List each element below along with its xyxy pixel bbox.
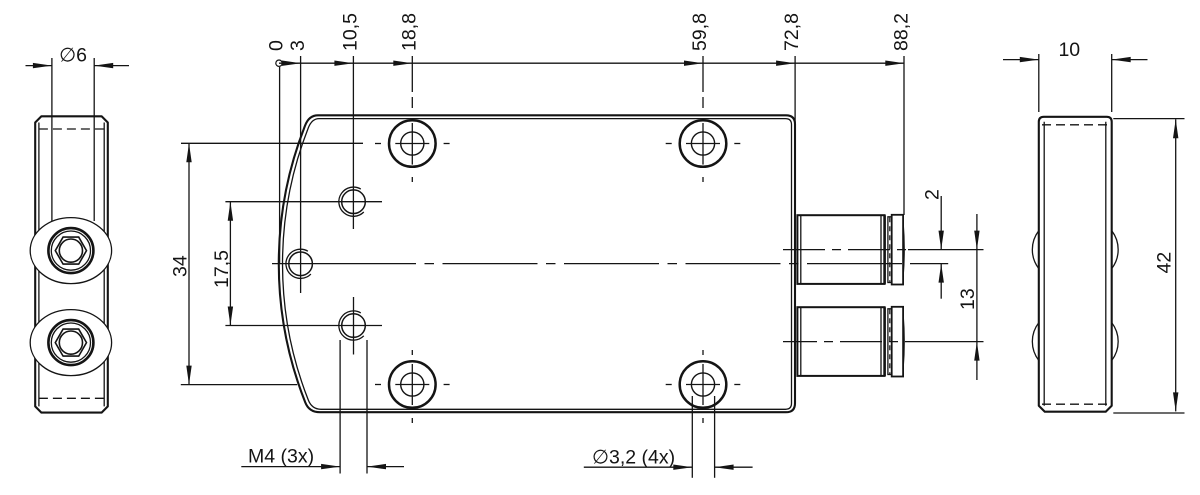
extension line x=72.8 <box>794 56 796 134</box>
mounting hole Ø3.2 top-left <box>375 120 450 167</box>
svg-text:18,8: 18,8 <box>398 13 420 51</box>
dimension 17,5 <box>211 202 382 326</box>
baseline dimension chain 0/3/10.5/18.8/59.8/72.8/88.2 <box>276 60 905 66</box>
M4 thread hole upper <box>339 187 365 216</box>
lower socket-head screw, left view <box>30 310 111 376</box>
extension line x=3 <box>300 56 302 233</box>
centreline cross, upper M4 <box>352 63 354 229</box>
centreline cross, centre M4 <box>300 233 302 293</box>
svg-text:72,8: 72,8 <box>781 13 803 51</box>
svg-text:10: 10 <box>1058 39 1080 61</box>
svg-text:M4 (3x): M4 (3x) <box>248 446 314 468</box>
upper socket-head screw, left view <box>30 218 111 284</box>
M4 thread hole centre <box>286 249 312 278</box>
fitting bump lower-left <box>1032 323 1038 361</box>
dimension 10 <box>1003 39 1148 112</box>
upper fitting centreline <box>783 249 984 251</box>
centreline bottom-left hole <box>411 350 413 423</box>
callout Ø3,2 (4x) <box>584 396 753 478</box>
svg-text:17,5: 17,5 <box>211 250 233 288</box>
svg-text:0: 0 <box>266 40 288 51</box>
dimension 42 <box>1113 119 1184 413</box>
mounting hole Ø3.2 top-right <box>666 120 741 167</box>
fitting bump lower-right <box>1112 323 1118 361</box>
svg-text:10,5: 10,5 <box>339 13 361 51</box>
extension line x=0 <box>279 67 281 264</box>
hidden edge (dashed) bottom of left view <box>39 397 104 399</box>
svg-text:3: 3 <box>287 40 309 51</box>
centreline bottom-right hole <box>702 350 704 423</box>
svg-text:∅6: ∅6 <box>59 45 87 67</box>
dimension 13 <box>957 214 980 380</box>
main top view: body outline <box>279 115 795 412</box>
pneumatic fitting, lower <box>797 307 904 377</box>
svg-text:2: 2 <box>922 189 944 200</box>
hidden edge (dashed) top of left view <box>39 128 104 130</box>
extension line x=59.8 <box>702 56 704 182</box>
svg-text:13: 13 <box>957 288 979 310</box>
extension line x=88.2 <box>903 56 905 215</box>
svg-text:59,8: 59,8 <box>689 13 711 51</box>
fitting bump upper-left <box>1032 231 1038 269</box>
pneumatic fitting, upper <box>797 215 904 285</box>
M4 thread hole lower <box>339 311 365 340</box>
fitting bump upper-right <box>1112 231 1118 269</box>
dimension Ø6 (screw head) <box>26 45 130 222</box>
dimension 34 <box>170 143 364 384</box>
left side view: mounting-bracket body <box>35 116 108 412</box>
mounting hole Ø3.2 bottom-left <box>375 361 450 408</box>
right side view body <box>1039 117 1112 412</box>
svg-text:∅3,2 (4x): ∅3,2 (4x) <box>592 447 675 469</box>
callout M4 (3x) <box>241 340 404 474</box>
svg-text:34: 34 <box>170 255 192 277</box>
svg-text:88,2: 88,2 <box>890 13 912 51</box>
dimension 2 <box>922 189 944 299</box>
lower fitting centreline <box>783 341 984 343</box>
svg-text:42: 42 <box>1154 252 1176 274</box>
centreline cross, lower M4 <box>353 297 355 355</box>
labels of dimension chain <box>266 13 913 51</box>
hidden edges right view <box>1042 125 1108 404</box>
main horizontal centreline <box>272 263 948 265</box>
extension line x=18.8 <box>411 56 413 182</box>
mounting hole Ø3.2 bottom-right <box>666 361 741 408</box>
extension line x=10.5 <box>352 56 354 63</box>
